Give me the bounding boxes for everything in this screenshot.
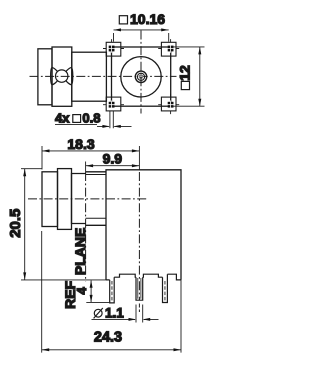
center contact inner ring: [137, 73, 144, 80]
barrel: bayonet ring: [58, 169, 72, 230]
barrel axis centerline: [28, 198, 148, 200]
dim dia1.1: text: [94, 309, 102, 317]
svg-text:10.16: 10.16: [130, 11, 165, 27]
dim 4: dimension line: [90, 280, 92, 302]
dim 24.3: extension lines: [42, 231, 181, 353]
center contact pin square: [139, 75, 142, 78]
dim 10.16: text: [119, 16, 127, 24]
dim 9.9: left extension: [85, 162, 87, 173]
barrel side view: rear shell: [72, 52, 107, 101]
bayonet slot right lobe: [65, 68, 73, 85]
pad pin bottom-right: [158, 94, 179, 114]
center contact outer ring: [135, 71, 146, 82]
svg-text:0.8: 0.8: [82, 111, 100, 126]
pad pin top-right: [158, 39, 179, 59]
svg-text:9.9: 9.9: [103, 150, 123, 166]
molded body outline: [106, 170, 181, 280]
body bottom profile with feet: [106, 274, 181, 280]
svg-text:4x: 4x: [55, 111, 70, 126]
svg-text:12: 12: [177, 65, 193, 81]
front view body square: [112, 47, 171, 106]
pad pin top-left: [103, 39, 124, 59]
pin width arrows: [97, 125, 132, 127]
svg-text:4: 4: [74, 287, 89, 295]
barrel side view: bayonet ring: [52, 47, 72, 106]
dim 10.16: extension lines: [114, 33, 169, 42]
dim 18.3: left extension: [41, 146, 43, 170]
dim dia1.1: arrows: [92, 319, 159, 321]
dim 4: extension line at pin tip: [86, 301, 109, 303]
bayonet slot left lobe: [51, 68, 59, 85]
dim 24.3: dimension line: [42, 349, 181, 351]
dim dia1.1: extension lines below center pin: [136, 305, 143, 323]
svg-text:24.3: 24.3: [94, 329, 122, 345]
pin 3 (right post): [163, 274, 168, 302]
dim 18.3: dimension line: [42, 150, 139, 152]
barrel: coupling nut: [42, 172, 58, 227]
pin width extension lines (top view): [110, 111, 113, 128]
dim 20.5: dimension line: [24, 169, 26, 280]
pin 1 (left post): [110, 277, 115, 303]
svg-text:PLANE: PLANE: [72, 228, 88, 275]
centerline horizontal axis (top views): [30, 75, 177, 77]
leader under label: [55, 123, 97, 125]
svg-text:20.5: 20.5: [7, 209, 24, 238]
dim 20.5: extension lines: [21, 169, 107, 280]
vertical axis centerline: [138, 172, 140, 300]
svg-text:1.1: 1.1: [105, 306, 124, 321]
bayonet stud circle: [56, 70, 68, 82]
barrel side view: coupling nut: [38, 49, 52, 105]
boss inner lines: [86, 175, 106, 219]
body front boss: [86, 172, 106, 226]
dim sq12: extension lines: [173, 47, 205, 106]
dim sq12: dimension line: [199, 47, 201, 106]
svg-text:18.3: 18.3: [67, 136, 94, 152]
dim 9.9: dimension line: [86, 165, 140, 167]
dim 10.16: dimension line: [114, 29, 169, 31]
barrel: rear shell: [72, 174, 86, 224]
center axis extension (to lower view): [138, 146, 140, 170]
vertical centerline front view: [140, 31, 142, 114]
pad pin bottom-left: [103, 94, 124, 111]
REF PLANE centerline: [85, 172, 87, 282]
front view coupling circle: [121, 57, 161, 97]
pin 2 (center contact): [136, 277, 143, 300]
dim sq12: rotated text: [177, 65, 193, 90]
